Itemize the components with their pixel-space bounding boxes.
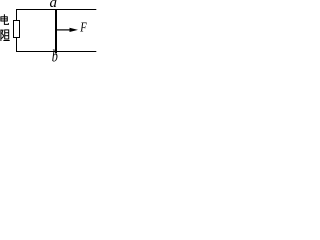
wire: left vertical, bottom segment xyxy=(16,38,18,52)
wire: bottom rail xyxy=(16,51,96,53)
rod ab (sliding conductor) xyxy=(55,9,57,53)
label 阻 (text 电阻, char 2) xyxy=(1,30,10,42)
svg-text:a: a xyxy=(50,0,58,11)
svg-text:b: b xyxy=(52,48,58,62)
label 电 (text 电阻, char 1) xyxy=(1,14,8,24)
wire: top rail xyxy=(16,9,96,11)
force arrow F shaft xyxy=(57,29,71,31)
resistor R (box symbol) xyxy=(14,21,20,38)
svg-text:F: F xyxy=(79,19,87,35)
force arrow F head xyxy=(70,28,79,32)
wire: left vertical, top segment xyxy=(16,9,18,20)
